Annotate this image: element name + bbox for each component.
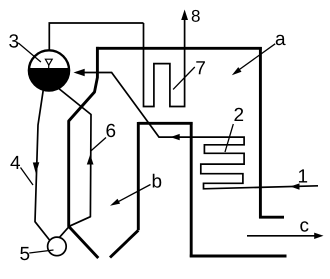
riser flow arrowhead up [87, 155, 94, 165]
riser wall tube thick (left wall + hopper left slope) [69, 47, 99, 258]
pointer arrow b [114, 185, 151, 205]
pointer line 6 [91, 138, 106, 152]
superheater 7 coil [144, 17, 185, 107]
steam outlet arrowhead 8 [181, 10, 188, 21]
label 7 [196, 61, 205, 74]
partition wall vertical [190, 122, 193, 257]
partition top horizontal [138, 122, 192, 125]
label 5 [20, 247, 29, 260]
flue exit duct top [259, 216, 284, 219]
label 8 [192, 10, 200, 22]
label 3 [9, 34, 18, 47]
riser thin tube 6 [58, 88, 92, 227]
label a [276, 35, 286, 45]
label 6 [106, 124, 115, 137]
downcomer 4 [35, 85, 50, 240]
label c [300, 221, 308, 231]
arrowhead economizer outlet [170, 134, 179, 140]
arrowhead inlet 1 [290, 183, 299, 189]
pointer line 3 [18, 43, 41, 62]
drum water fill [28, 68, 69, 91]
label b [153, 174, 162, 188]
label 4 [10, 156, 20, 169]
feedwater inlet line 1 + economizer 2 coil + line to drum [76, 73, 318, 189]
pointer line 7 [173, 67, 195, 89]
flue gas out arrow c [247, 235, 315, 237]
pump link line [59, 226, 69, 237]
downcomer flow arrowhead [33, 162, 40, 174]
pump/header circle 5 [48, 237, 67, 256]
steam line drum to superheater [49, 23, 143, 51]
arrowhead into drum [74, 69, 85, 76]
pointer line 2 [225, 124, 233, 152]
furnace nose vertical wall [137, 122, 140, 230]
hopper right slope [110, 230, 138, 257]
water level mark [45, 59, 52, 65]
label 2 [234, 108, 243, 121]
drum 3 [29, 50, 69, 90]
pointer line 5 [29, 250, 53, 253]
furnace top wall [96, 47, 262, 50]
pointer arrow a [235, 44, 276, 73]
pointer line 4 [21, 168, 34, 186]
furnace right wall [259, 47, 262, 218]
furnace bottom wall [190, 255, 287, 258]
label 1 [299, 169, 307, 182]
